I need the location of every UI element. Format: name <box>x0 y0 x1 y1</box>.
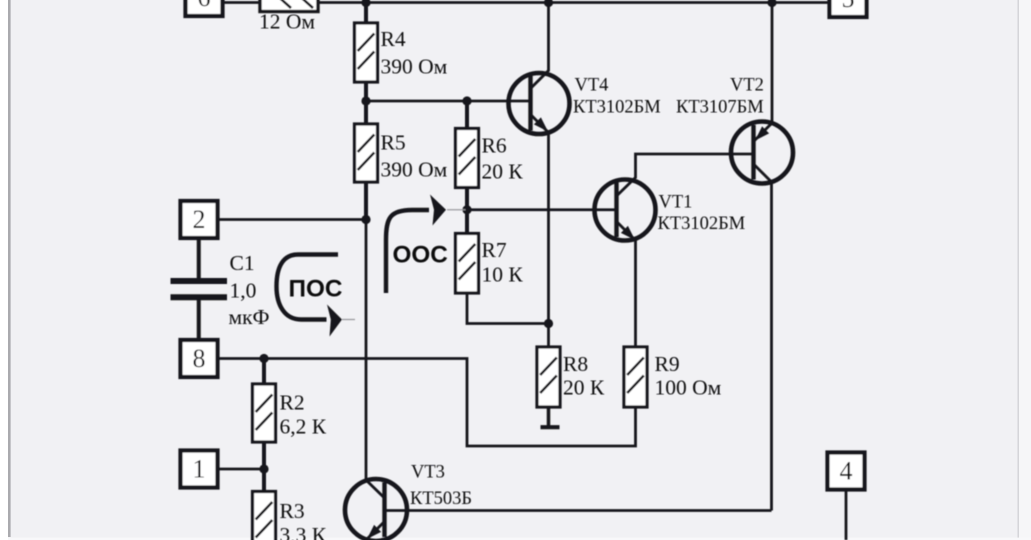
node pad2-R5 <box>361 215 370 224</box>
wire C1 bottom lead <box>197 300 201 341</box>
svg-text:100 Ом: 100 Ом <box>655 376 722 400</box>
wire pad2 to node <box>218 218 367 221</box>
svg-text:R6: R6 <box>482 134 507 158</box>
resistor R2 <box>253 384 276 442</box>
svg-text:VT2: VT2 <box>730 76 764 96</box>
resistor R3 (cut at bottom) <box>253 492 276 540</box>
svg-text:20 К: 20 К <box>482 160 524 184</box>
svg-text:C1: C1 <box>230 251 255 275</box>
svg-text:390 Ом: 390 Ом <box>381 55 448 79</box>
svg-text:3,3 К: 3,3 К <box>280 523 327 540</box>
ООС feedback arrow <box>386 210 429 293</box>
svg-text:6,2 К: 6,2 К <box>280 415 327 439</box>
svg-text:10 К: 10 К <box>482 263 524 287</box>
svg-text:ПОС: ПОС <box>289 276 343 303</box>
svg-text:R3: R3 <box>280 499 305 523</box>
resistor R8 <box>537 347 560 407</box>
svg-text:КТ3102БМ: КТ3102БМ <box>658 214 746 234</box>
svg-text:R4: R4 <box>381 27 406 51</box>
wire R5 bottom lead <box>364 182 368 220</box>
svg-text:VT4: VT4 <box>575 76 609 96</box>
svg-text:1,0: 1,0 <box>230 279 257 303</box>
svg-text:R5: R5 <box>381 131 406 155</box>
wire top supply bus <box>222 1 830 4</box>
svg-text:390 Ом: 390 Ом <box>381 158 448 182</box>
right frame line <box>1017 0 1019 540</box>
wire base bus VT4 <box>366 100 531 103</box>
wire VT2 collector down <box>754 165 772 511</box>
wire VT4 collector to bus <box>531 3 549 89</box>
node R4-R5 <box>361 96 370 105</box>
wire R7 bottom to emitter node <box>467 293 549 324</box>
svg-text:8: 8 <box>193 344 206 373</box>
resistor R9 <box>624 347 647 407</box>
node bus-R4 <box>361 0 370 7</box>
svg-text:6: 6 <box>198 0 211 12</box>
resistor 12 Ом (horizontal, cut at top) <box>260 0 318 12</box>
node R4-R6 <box>462 96 471 105</box>
svg-text:2: 2 <box>193 205 206 234</box>
pad 1 <box>181 451 218 488</box>
left frame line <box>8 0 11 537</box>
wire VT3 collector diag <box>367 481 385 499</box>
wire R2 bottom lead <box>262 442 266 470</box>
pad 5 (cut at top) <box>830 0 867 17</box>
svg-text:VT3: VT3 <box>411 463 445 483</box>
VT4 emitter arrow <box>534 117 548 131</box>
svg-text:1: 1 <box>193 454 206 483</box>
node bus-VT2 <box>767 0 776 7</box>
pad 6 (cut at top) <box>186 0 223 16</box>
node bus-VT4 <box>544 0 553 7</box>
resistor R6 <box>456 129 479 188</box>
wire pad8 feedback run to R9 <box>218 359 636 447</box>
node R6-R7 <box>462 205 471 214</box>
pad 8 <box>181 340 218 377</box>
wire VT2 collector to VT3 base <box>385 509 772 512</box>
svg-text:R9: R9 <box>655 352 680 376</box>
VT3 emitter arrow <box>367 525 381 539</box>
svg-text:R2: R2 <box>280 391 305 415</box>
node pad8-R2 <box>259 354 268 363</box>
svg-text:R8: R8 <box>563 352 588 376</box>
transistor VT1 <box>595 180 656 241</box>
wire VT1 emitter to R9 <box>634 241 637 348</box>
wire R6 top lead <box>465 101 469 129</box>
wire VT4 emitter diag <box>531 115 549 133</box>
pad 2 <box>181 201 218 238</box>
ПОС feedback arrow <box>277 255 339 320</box>
capacitor C1 <box>171 278 228 284</box>
VT1 emitter arrow <box>621 226 635 240</box>
wire R4 top lead <box>364 3 368 24</box>
svg-text:20 К: 20 К <box>563 376 605 400</box>
svg-text:5: 5 <box>842 0 855 13</box>
resistor R7 <box>456 234 479 294</box>
wire VT4 emitter down to R8 <box>547 133 550 348</box>
svg-text:R7: R7 <box>482 238 507 262</box>
bottom page margin <box>8 538 1031 540</box>
svg-text:КТ3107БМ: КТ3107БМ <box>676 98 764 118</box>
left page margin <box>0 0 8 540</box>
svg-text:12 Ом: 12 Ом <box>259 10 315 34</box>
wire C1 top lead <box>197 239 201 279</box>
VT2 emitter arrow <box>755 126 769 140</box>
wire R6R7 node to VT1 base <box>467 208 617 211</box>
node pad1-R2R3 <box>259 464 268 473</box>
ПОС leader line <box>342 319 355 321</box>
node VT4e-R8 <box>544 319 553 328</box>
resistor R4 <box>355 23 378 82</box>
wire R4-R5 leads <box>364 82 368 124</box>
wire R7 top lead <box>465 210 469 234</box>
wire R2 top lead <box>262 359 266 385</box>
resistor R5 <box>355 124 378 182</box>
pad 4 <box>828 453 865 490</box>
wire R6 bottom lead <box>465 187 469 210</box>
wire R3 top lead <box>262 469 266 492</box>
right page margin <box>1019 0 1031 540</box>
ground below R8 <box>547 407 551 427</box>
svg-text:КТ3102БМ: КТ3102БМ <box>573 98 661 118</box>
wire VT2 emitter to bus <box>754 3 772 142</box>
wire VT3 emitter diag <box>367 522 385 540</box>
wire node2 to VT3 collector <box>365 220 368 481</box>
svg-text:мкФ: мкФ <box>229 305 270 329</box>
transistor VT3 (mirrored, cut at bottom) <box>345 479 407 540</box>
wire VT1 collector to VT2 base <box>617 154 755 196</box>
wire pad4 lead <box>845 490 848 540</box>
svg-text:ООС: ООС <box>393 242 448 269</box>
svg-text:4: 4 <box>840 456 853 485</box>
wire VT1 emitter diag <box>617 222 636 241</box>
svg-text:VT1: VT1 <box>659 193 693 213</box>
svg-text:КТ503Б: КТ503Б <box>410 489 472 509</box>
transistor VT4 <box>509 73 570 134</box>
wire pad1 to node <box>218 468 265 471</box>
ООС leader line <box>447 209 466 211</box>
transistor VT2 (pnp) <box>731 122 793 184</box>
